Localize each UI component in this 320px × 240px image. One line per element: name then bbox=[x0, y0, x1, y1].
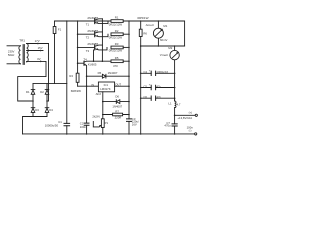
svg-text:L1: L1 bbox=[168, 102, 172, 106]
svg-text:D6: D6 bbox=[115, 94, 119, 98]
wire output leg bbox=[174, 108, 176, 134]
svg-text:16V: 16V bbox=[132, 122, 137, 126]
resistor R3 0R22 bbox=[109, 42, 129, 53]
svg-text:10000u/50: 10000u/50 bbox=[45, 123, 59, 127]
svg-text:+: + bbox=[149, 69, 151, 73]
svg-text:F1: F1 bbox=[58, 28, 62, 32]
svg-text:6R8/2W: 6R8/2W bbox=[71, 89, 81, 93]
resistor R2 0R22 bbox=[109, 29, 129, 39]
wire bottom rail bbox=[23, 133, 195, 135]
diode D2 bbox=[40, 84, 49, 107]
svg-text:C5: C5 bbox=[143, 84, 147, 88]
diode D4 bbox=[45, 108, 53, 117]
node 15V tap bbox=[27, 46, 43, 51]
capacitor C7 bbox=[164, 121, 177, 127]
svg-text:+: + bbox=[149, 83, 151, 87]
mains wire L bbox=[7, 45, 21, 47]
output terminal plus bbox=[195, 114, 197, 116]
svg-text:50Hz: 50Hz bbox=[8, 53, 15, 57]
capacitor C2 bbox=[80, 76, 89, 134]
svg-text:47n: 47n bbox=[156, 95, 161, 99]
wire reg input bbox=[78, 85, 99, 87]
svg-text:T2: T2 bbox=[86, 36, 90, 40]
resistor R7 220R bbox=[103, 109, 129, 119]
resistor R6 shunt bbox=[139, 21, 147, 46]
svg-text:15V: 15V bbox=[38, 46, 43, 50]
svg-text:0R22/12W: 0R22/12W bbox=[109, 35, 123, 39]
svg-text:R6: R6 bbox=[143, 31, 147, 35]
svg-text:0R22/12W: 0R22/12W bbox=[109, 49, 123, 53]
diode D5 bbox=[87, 71, 129, 78]
svg-text:(+): (+) bbox=[189, 111, 193, 115]
svg-text:M2: M2 bbox=[168, 46, 172, 50]
wire reg out bbox=[115, 85, 129, 87]
svg-text:TR1: TR1 bbox=[19, 39, 25, 43]
svg-text:C1: C1 bbox=[58, 120, 62, 124]
meter M2 voltmeter bbox=[160, 46, 180, 73]
capacitor C4 bbox=[141, 69, 175, 76]
wire out bus bbox=[128, 21, 130, 115]
wire bridge plus line bbox=[33, 83, 67, 85]
capacitor C3 bbox=[127, 115, 140, 134]
svg-text:100n: 100n bbox=[80, 125, 87, 129]
svg-text:LM317K: LM317K bbox=[100, 87, 111, 91]
svg-text:T1: T1 bbox=[86, 23, 90, 27]
svg-text:R2: R2 bbox=[115, 29, 119, 33]
node bridge AC A bbox=[32, 100, 34, 102]
wire bridge minus bbox=[23, 117, 48, 134]
svg-text:2k2/N: 2k2/N bbox=[92, 115, 99, 119]
transformer TR1 bbox=[8, 39, 28, 65]
potentiometer P1 bbox=[92, 115, 108, 134]
resistor R5 470 bbox=[111, 56, 129, 68]
transistor T4 driver bbox=[78, 50, 111, 76]
svg-text:470u: 470u bbox=[164, 123, 171, 127]
svg-text:R3: R3 bbox=[115, 42, 119, 46]
capacitor C5 bbox=[141, 83, 175, 90]
node 0V tap bbox=[18, 57, 46, 101]
svg-text:Ametr: Ametr bbox=[146, 23, 154, 27]
svg-text:4,7: 4,7 bbox=[177, 103, 181, 107]
wire top bus bbox=[55, 21, 185, 46]
transistor T2 2N3055 bbox=[78, 29, 108, 40]
svg-text:47u: 47u bbox=[156, 84, 161, 88]
diode D3 bbox=[31, 108, 39, 117]
svg-text:R5: R5 bbox=[115, 56, 119, 60]
svg-text:1000u/16: 1000u/16 bbox=[156, 70, 168, 74]
wire cap stack left rail bbox=[140, 46, 142, 134]
svg-text:R1: R1 bbox=[115, 16, 119, 20]
transistor T3 2N3055 bbox=[78, 42, 107, 53]
svg-text:C4: C4 bbox=[143, 70, 147, 74]
svg-text:+13,8V/10A: +13,8V/10A bbox=[177, 116, 192, 120]
svg-text:17V: 17V bbox=[35, 39, 40, 43]
svg-text:0V: 0V bbox=[37, 57, 41, 61]
node bridge AC B bbox=[46, 100, 48, 102]
svg-text:P1: P1 bbox=[105, 121, 109, 125]
diode D6 bbox=[103, 94, 129, 108]
wire collector chain bbox=[101, 19, 103, 61]
svg-text:60mV: 60mV bbox=[160, 38, 167, 42]
svg-text:D4: D4 bbox=[49, 108, 53, 112]
diode D1 bbox=[26, 84, 35, 107]
svg-text:D5: D5 bbox=[98, 71, 102, 75]
inductor L1 bbox=[168, 98, 181, 107]
svg-text:220R: 220R bbox=[115, 115, 122, 119]
node C1 top bbox=[66, 20, 68, 22]
regulator IC1 LM317 bbox=[91, 82, 121, 96]
svg-text:T3: T3 bbox=[86, 49, 90, 53]
svg-text:C6: C6 bbox=[143, 95, 147, 99]
resistor R4 bbox=[69, 63, 81, 93]
svg-text:KU605: KU605 bbox=[88, 63, 97, 67]
svg-text:R7: R7 bbox=[115, 109, 119, 113]
capacitor C1 bbox=[45, 21, 70, 134]
svg-text:D3: D3 bbox=[35, 108, 39, 112]
svg-text:(-): (-) bbox=[189, 128, 192, 132]
base bus wire bbox=[77, 21, 79, 63]
wire meter node bbox=[141, 45, 185, 47]
svg-text:R4: R4 bbox=[69, 74, 73, 78]
svg-text:ADJ: ADJ bbox=[96, 92, 102, 96]
fuse F1 bbox=[53, 21, 61, 84]
svg-text:IN: IN bbox=[91, 83, 94, 87]
svg-text:Vmetr: Vmetr bbox=[160, 53, 168, 57]
svg-text:D2: D2 bbox=[40, 90, 44, 94]
mains wire N bbox=[7, 63, 21, 65]
svg-text:0R5/1W: 0R5/1W bbox=[137, 16, 148, 20]
resistor R1 0R22 bbox=[109, 16, 129, 27]
meter M1 ammeter bbox=[146, 21, 168, 46]
svg-text:1N4007: 1N4007 bbox=[108, 71, 118, 75]
wire cap stack right rail bbox=[174, 73, 176, 101]
svg-text:M1: M1 bbox=[163, 24, 167, 28]
node 17V tap bbox=[27, 39, 49, 101]
svg-text:0R22/12W: 0R22/12W bbox=[109, 22, 123, 26]
capacitor C6 bbox=[141, 95, 175, 100]
output terminal minus bbox=[195, 133, 197, 135]
svg-text:470: 470 bbox=[113, 64, 118, 68]
wire adj bbox=[102, 92, 104, 119]
wire output plus bbox=[175, 114, 196, 116]
transistor T1 2N3055 bbox=[86, 16, 108, 27]
svg-text:1N4007: 1N4007 bbox=[112, 104, 122, 108]
svg-text:D1: D1 bbox=[26, 90, 30, 94]
